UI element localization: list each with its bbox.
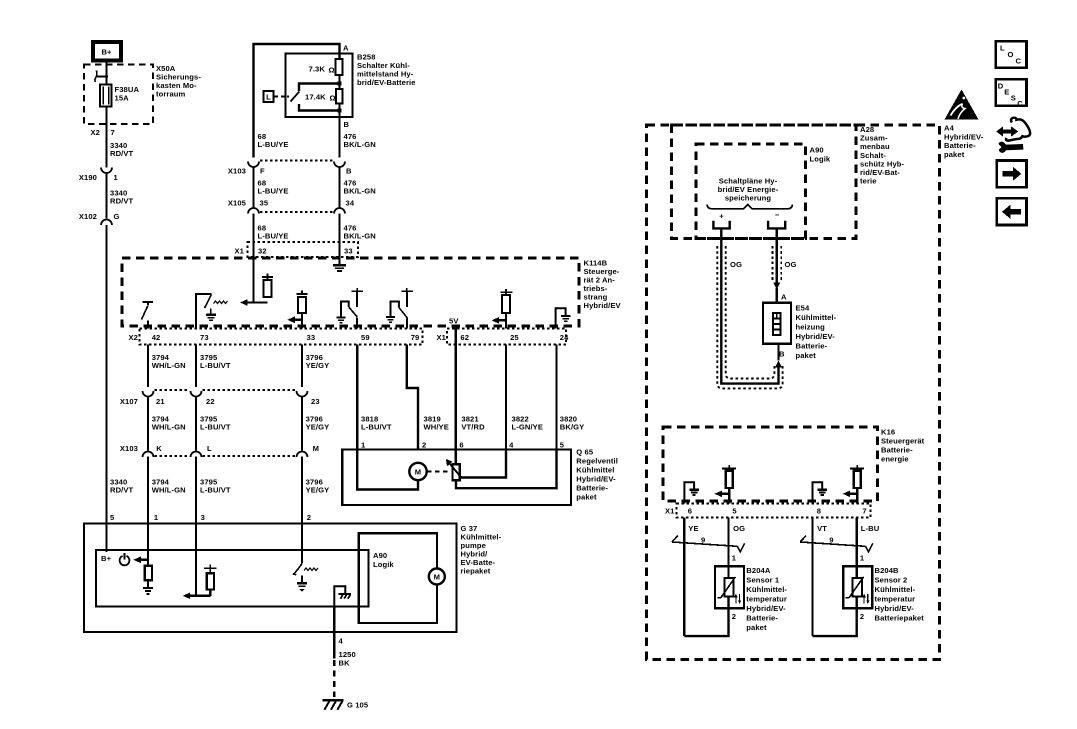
svg-text:A: A	[781, 293, 787, 302]
pump G37 Kuehlmittelpumpe box	[84, 524, 502, 633]
connector X107 pins 21 22 23	[120, 390, 320, 406]
svg-text:B+: B+	[101, 48, 112, 57]
wire YE label	[684, 518, 698, 637]
svg-text:Q 65: Q 65	[576, 448, 594, 457]
thermistor symbol sensor1	[717, 577, 741, 604]
resistor internal K16 left	[715, 465, 737, 504]
svg-text:1: 1	[732, 554, 737, 563]
svg-text:WH/L-GN: WH/L-GN	[152, 423, 186, 432]
svg-text:L: L	[1000, 44, 1005, 53]
svg-text:Hybrid/EV-: Hybrid/EV-	[576, 475, 616, 484]
wire 3795 L-BU/VT label	[196, 397, 231, 451]
svg-text:L-BU/VT: L-BU/VT	[200, 423, 231, 432]
button arrow back	[997, 198, 1027, 225]
svg-text:paket: paket	[796, 351, 817, 360]
svg-text:BK/L-GN: BK/L-GN	[344, 140, 376, 149]
power symbol	[120, 553, 130, 565]
wire VT label	[813, 518, 828, 637]
connector band X1 pins 62 25 24	[437, 329, 570, 345]
wire pin 3 arrow	[183, 524, 211, 600]
resistor internal at X1 pin 32	[240, 257, 273, 306]
battery feed B+	[93, 42, 121, 61]
svg-text:G 105: G 105	[347, 701, 369, 710]
svg-text:YE/GY: YE/GY	[306, 486, 330, 495]
wire 3794 WH/L-GN label	[148, 345, 186, 388]
svg-text:torraum: torraum	[156, 90, 186, 99]
svg-text:YE/GY: YE/GY	[306, 423, 330, 432]
svg-text:B+: B+	[101, 554, 112, 563]
svg-text:8: 8	[817, 507, 821, 516]
heater E54 Kuehlmittelheizung	[763, 293, 837, 361]
fuse clip symbol	[95, 71, 108, 83]
svg-text:Sensor 1: Sensor 1	[746, 576, 780, 585]
connector X103 dotted link	[260, 159, 333, 161]
wire fuse to X2 pin 7	[91, 107, 115, 168]
wire sensor1 pin1 top	[727, 566, 729, 578]
svg-text:X103: X103	[120, 444, 138, 453]
svg-text:35: 35	[260, 199, 269, 208]
svg-text:32: 32	[258, 247, 267, 256]
svg-text:22: 22	[206, 397, 215, 406]
svg-text:5: 5	[732, 507, 737, 516]
node B+ in A90	[101, 524, 112, 564]
svg-text:4: 4	[509, 441, 514, 450]
svg-text:B: B	[344, 120, 350, 129]
wire 3794 WH/L-GN label	[148, 397, 186, 451]
svg-text:F: F	[260, 167, 265, 176]
svg-text:X107: X107	[120, 397, 138, 406]
battery pack A4 Hybrid/EV-Batteriepaket	[647, 124, 984, 660]
wire 476 BK/L-GN label	[340, 214, 376, 266]
svg-text:5V: 5V	[449, 317, 459, 326]
wire 3340 RD/VT label	[107, 173, 134, 219]
ground internal K16 left	[684, 482, 699, 503]
wire 3340 RD/VT down to G37	[107, 225, 134, 524]
svg-text:YE: YE	[688, 524, 698, 533]
switch internal pin 42	[142, 302, 154, 329]
svg-text:5: 5	[560, 441, 565, 450]
svg-text:15A: 15A	[115, 94, 130, 103]
svg-text:G: G	[114, 212, 120, 221]
svg-text:L: L	[207, 444, 212, 453]
wire 3819 WH/YE label with jog	[407, 345, 449, 450]
svg-text:Kühlmittel-: Kühlmittel-	[746, 585, 787, 594]
svg-text:X2: X2	[129, 333, 139, 342]
node 5V supply pin 62	[449, 317, 459, 329]
svg-text:Batterie-: Batterie-	[576, 484, 608, 493]
svg-text:C: C	[1016, 57, 1022, 66]
svg-text:42: 42	[152, 333, 161, 342]
connector X1 pins 32 33	[235, 242, 359, 257]
svg-text:YE/GY: YE/GY	[306, 361, 330, 370]
svg-text:Kühlmittel: Kühlmittel	[576, 466, 614, 475]
svg-text:9: 9	[701, 536, 705, 545]
svg-text:energie: energie	[881, 455, 909, 464]
svg-text:B204A: B204A	[746, 566, 771, 575]
svg-text:1: 1	[361, 441, 366, 450]
svg-text:Ω: Ω	[330, 94, 336, 103]
svg-text:Hybrid/EV-: Hybrid/EV-	[875, 604, 915, 613]
svg-text:Hybrid/EV-: Hybrid/EV-	[944, 132, 984, 141]
svg-text:A: A	[343, 44, 349, 53]
svg-text:L-BU/VT: L-BU/VT	[200, 361, 231, 370]
switch internal pin 59 with ground	[337, 288, 364, 329]
svg-text:terie: terie	[860, 177, 877, 186]
svg-text:B204B: B204B	[875, 566, 900, 575]
svg-text:33: 33	[344, 247, 353, 256]
svg-text:3: 3	[201, 513, 205, 522]
svg-text:23: 23	[311, 397, 320, 406]
wire 3340 RD/VT label	[110, 141, 134, 158]
fuse F38UA 15A	[100, 85, 139, 107]
svg-text:BK/L-GN: BK/L-GN	[344, 232, 376, 241]
svg-text:X1: X1	[437, 333, 447, 342]
ground G105	[323, 700, 369, 709]
svg-text:X105: X105	[228, 199, 247, 208]
svg-text:M: M	[313, 444, 319, 453]
svg-text:VT: VT	[817, 524, 827, 533]
wire 68 L-BU/YE label	[254, 214, 289, 303]
svg-text:OG: OG	[785, 260, 797, 269]
svg-text:X1: X1	[235, 247, 245, 256]
connector X105 dotted link	[260, 211, 333, 213]
svg-text:paket: paket	[746, 623, 767, 632]
wire L-BU label sensor2	[857, 518, 880, 579]
svg-text:OG: OG	[733, 524, 745, 533]
svg-text:X1: X1	[665, 507, 675, 516]
svg-text:M: M	[434, 573, 440, 582]
resistor internal pin 33	[287, 291, 307, 329]
svg-text:L-BU: L-BU	[861, 524, 880, 533]
wire 68 L-BU/YE label	[254, 167, 289, 209]
svg-text:34: 34	[346, 199, 355, 208]
button arrow next	[997, 161, 1027, 188]
svg-text:A90: A90	[373, 551, 387, 560]
svg-text:A90: A90	[810, 146, 824, 155]
svg-text:25: 25	[510, 333, 519, 342]
svg-text:Ω: Ω	[329, 66, 335, 75]
svg-text:B: B	[346, 167, 352, 176]
fuse box X50A Sicherungskasten Motorraum	[84, 64, 201, 124]
svg-text:33: 33	[307, 333, 316, 342]
svg-text:Hybrid/EV: Hybrid/EV	[584, 301, 622, 310]
svg-text:temperatur: temperatur	[875, 595, 916, 604]
switch S258 Schalter Kuehlmittelstand	[286, 53, 416, 118]
wire OG label sensor1	[729, 518, 746, 579]
driver switch in A90 pin 2	[293, 524, 318, 592]
brace	[707, 205, 793, 209]
svg-text:Kühlmittel-: Kühlmittel-	[796, 313, 837, 322]
svg-text:Batterie-: Batterie-	[944, 141, 976, 150]
motor M in Q65	[357, 450, 449, 490]
svg-text:59: 59	[361, 333, 370, 342]
svg-text:Sensor 2: Sensor 2	[875, 576, 908, 585]
wire 3822 L-GN/YE label	[506, 345, 543, 450]
wire 476 BK/L-GN label	[344, 132, 376, 149]
connector X105 pin 34	[334, 199, 355, 214]
driver internal pin 73	[195, 294, 228, 329]
svg-text:Regelventil: Regelventil	[576, 457, 618, 466]
wire 3796 YE/GY label	[302, 397, 329, 451]
svg-text:21: 21	[156, 397, 165, 406]
switch blade	[291, 92, 300, 102]
shield positive inner	[726, 246, 775, 379]
heater element symbol	[773, 313, 780, 335]
svg-text:Logik: Logik	[373, 560, 394, 569]
level sensor L box	[264, 91, 290, 102]
svg-text:Steuergerät: Steuergerät	[881, 437, 925, 446]
svg-text:temperatur: temperatur	[746, 595, 787, 604]
valve assembly Q65 Regelventil Kuehlmittel	[342, 441, 618, 506]
svg-text:17.4K: 17.4K	[305, 93, 326, 102]
switch internal pin 79 with ground	[386, 288, 413, 329]
svg-text:RD/VT: RD/VT	[110, 486, 134, 495]
svg-text:C: C	[1017, 99, 1023, 108]
svg-text:O: O	[1008, 50, 1014, 59]
wire positive OG shielded to E54 B	[721, 228, 782, 383]
svg-text:Batteriepaket: Batteriepaket	[875, 614, 925, 623]
svg-text:Batterie-: Batterie-	[796, 342, 828, 351]
svg-text:K: K	[156, 444, 162, 453]
svg-text:WH/L-GN: WH/L-GN	[152, 361, 186, 370]
svg-text:4: 4	[339, 637, 344, 646]
thermistor symbol sensor2	[846, 577, 870, 604]
wire 3820 BK/GY label	[557, 345, 585, 450]
button LOC	[996, 41, 1027, 68]
wire 3796 YE/GY to pump	[302, 457, 329, 564]
connector X105 pin 35	[228, 199, 269, 214]
svg-text:S: S	[1011, 94, 1016, 103]
svg-text:Kühlmittel-: Kühlmittel-	[875, 585, 916, 594]
svg-text:2: 2	[860, 612, 864, 621]
wire sensor1 pin2 return	[684, 597, 728, 637]
terminal minus	[768, 211, 785, 229]
wire S258 pin B	[340, 104, 350, 158]
svg-text:Hybrid/EV-: Hybrid/EV-	[796, 332, 836, 341]
svg-text:X103: X103	[228, 167, 246, 176]
wire B+ to fuse box	[105, 61, 107, 85]
resistor in A90 pin 1	[143, 566, 153, 594]
resistor 17.4K	[305, 89, 343, 104]
svg-text:BK/L-GN: BK/L-GN	[344, 187, 376, 196]
svg-text:E: E	[1004, 88, 1009, 97]
svg-text:1: 1	[154, 513, 159, 522]
svg-text:Hybrid/EV-: Hybrid/EV-	[746, 604, 786, 613]
svg-text:24: 24	[560, 333, 569, 342]
icon repair jump arrows wrench	[996, 118, 1030, 153]
warning triangle high voltage	[945, 90, 979, 120]
wire 3795 L-BU/VT to pump	[196, 457, 231, 596]
connector X103 pin F	[228, 162, 265, 176]
svg-text:paket: paket	[576, 493, 597, 502]
svg-text:D: D	[998, 82, 1004, 91]
node Schaltplaene Hybrid/EV Energiespeicherung	[718, 177, 779, 203]
sensor B204A Sensor 1 Kuehlmitteltemperatur	[715, 554, 787, 633]
svg-text:73: 73	[200, 333, 209, 342]
svg-text:heizung: heizung	[796, 323, 826, 332]
svg-text:L-BU/YE: L-BU/YE	[258, 232, 289, 241]
svg-text:M: M	[415, 468, 421, 477]
svg-text:9: 9	[829, 536, 833, 545]
wire 3795 L-BU/VT label	[196, 345, 231, 388]
svg-text:RD/VT: RD/VT	[110, 149, 134, 158]
button DESC	[996, 79, 1027, 108]
control module K114B Steuergeraet 2 Antriebsstrang Hybrid/EV	[122, 258, 622, 326]
svg-text:Batterie-: Batterie-	[746, 614, 778, 623]
svg-text:Logik: Logik	[810, 155, 831, 164]
logic module A90 Logik battery	[696, 144, 831, 239]
svg-text:Batterie-: Batterie-	[881, 446, 913, 455]
wire 3794 WH/L-GN to pump	[148, 457, 186, 566]
svg-text:L-BU/VT: L-BU/VT	[361, 423, 392, 432]
pull-up resistor in A90 pin 3	[204, 565, 217, 596]
connector band X2 pins 42 73 33 59 79	[129, 329, 423, 345]
twisted pair symbol 9 left	[672, 536, 745, 552]
svg-text:WH/L-GN: WH/L-GN	[152, 486, 186, 495]
wire sensor2 pin1 top	[856, 566, 858, 578]
svg-text:L: L	[266, 93, 271, 102]
motor M of pump	[429, 569, 445, 585]
shield negative lines	[772, 246, 781, 280]
pump motor inner box	[359, 533, 437, 623]
control module K16 Steuergeraet Batterieenergie	[663, 427, 925, 501]
svg-text:BK: BK	[339, 659, 351, 668]
svg-text:K16: K16	[881, 428, 895, 437]
connector X102 pin G	[79, 212, 120, 225]
node junction lower	[338, 109, 342, 113]
wire 3796 YE/GY label	[302, 345, 329, 388]
svg-text:WH/YE: WH/YE	[424, 423, 449, 432]
ground internal pin 24	[556, 308, 571, 328]
svg-text:L-BU/YE: L-BU/YE	[258, 187, 289, 196]
svg-text:6: 6	[459, 441, 463, 450]
resistor internal K16 right	[843, 465, 865, 504]
connector band X1 pins 6 5 8 7	[665, 504, 871, 518]
svg-text:X2: X2	[91, 128, 101, 137]
valve variable resistor in Q65	[446, 450, 557, 489]
ground internal at pin 33 top	[333, 257, 346, 271]
wire 3818 L-BU/VT label	[357, 345, 392, 450]
svg-text:+: +	[719, 212, 724, 221]
shield positive outer	[717, 246, 782, 388]
twisted pair symbol 9 right	[800, 536, 873, 552]
wire 476 BK/L-GN label	[340, 167, 376, 209]
svg-text:B: B	[779, 350, 785, 359]
wire sensor2 pin2 return	[813, 597, 857, 637]
wire pin 4 ground 1250 BK	[334, 607, 355, 698]
wire pin 1 arrow to power	[133, 524, 148, 566]
svg-text:2: 2	[422, 441, 426, 450]
sensor B204B Sensor 2 Kuehlmitteltemperatur	[843, 554, 924, 623]
svg-text:A4: A4	[944, 124, 955, 133]
ground return in A90	[334, 586, 351, 606]
wire 3821 VT/RD label	[456, 329, 485, 450]
contactor assembly A28 Zusammenbau Schaltschuetz	[672, 125, 905, 239]
wire 68 L-BU/YE label	[258, 132, 289, 149]
switch contact upper	[299, 84, 340, 92]
svg-text:7: 7	[862, 507, 866, 516]
svg-text:L-BU/VT: L-BU/VT	[200, 486, 231, 495]
resistor internal pin 25	[492, 289, 513, 329]
ground internal K16 right	[813, 482, 828, 503]
svg-text:6: 6	[688, 507, 692, 516]
svg-text:7: 7	[111, 128, 115, 137]
svg-text:paket: paket	[944, 150, 965, 159]
svg-text:2: 2	[307, 513, 311, 522]
connector X103 pins K L M	[120, 444, 319, 457]
wire negative OG shielded to E54 A	[773, 228, 796, 302]
svg-text:79: 79	[411, 333, 420, 342]
svg-text:brid/EV-Batterie: brid/EV-Batterie	[357, 78, 416, 87]
svg-text:E54: E54	[796, 304, 810, 313]
resistor 7.3K	[309, 59, 343, 89]
svg-text:L-GN/YE: L-GN/YE	[512, 423, 544, 432]
svg-text:62: 62	[460, 333, 469, 342]
svg-text:L-BU/YE: L-BU/YE	[258, 140, 289, 149]
logic module A90 Logik in pump	[96, 550, 394, 607]
svg-text:RD/VT: RD/VT	[110, 197, 134, 206]
svg-text:OG: OG	[730, 260, 742, 269]
node junction between resistors	[338, 82, 342, 86]
svg-text:VT/RD: VT/RD	[461, 423, 485, 432]
connector X103 pin B	[334, 162, 352, 176]
svg-text:1: 1	[114, 173, 119, 182]
svg-text:X102: X102	[79, 212, 97, 221]
svg-text:5: 5	[110, 513, 115, 522]
connector X190 pin 1	[79, 168, 119, 183]
wire S258 pin A loop	[254, 44, 350, 158]
svg-text:riepaket: riepaket	[461, 567, 491, 576]
svg-text:BK/GY: BK/GY	[560, 423, 585, 432]
svg-text:1: 1	[860, 554, 865, 563]
svg-text:speicherung: speicherung	[725, 194, 772, 203]
terminal plus	[713, 212, 729, 229]
svg-text:7.3K: 7.3K	[309, 65, 326, 74]
svg-text:2: 2	[732, 612, 736, 621]
svg-text:X190: X190	[79, 173, 97, 182]
switch contact lower	[299, 104, 340, 111]
svg-text:−: −	[775, 211, 780, 220]
